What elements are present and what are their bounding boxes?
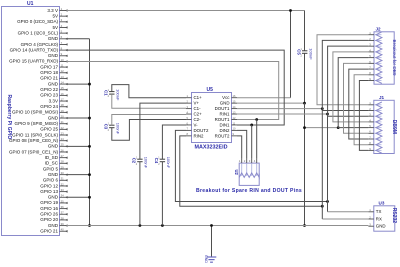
U5 pin 4 C2+ <box>186 110 202 116</box>
junction ROUT1/U2 pin4 <box>255 118 258 121</box>
wire U5 GND row <box>237 102 305 104</box>
svg-text:C1-: C1- <box>194 106 202 111</box>
J1 pin 7 <box>368 135 381 139</box>
U1 pin 23 GPIO 11 (SPI0_SCLK) <box>12 131 68 137</box>
J2 pin 3 <box>368 43 381 47</box>
svg-text:V-: V- <box>194 122 199 127</box>
svg-text:37: 37 <box>61 211 65 215</box>
wire TXD to DIN1 <box>67 50 285 125</box>
junction ground symbol <box>210 224 213 227</box>
svg-text:28: 28 <box>61 160 65 164</box>
U1 pin 3 GPIO 0 (I2C0_SDA) <box>17 18 68 24</box>
svg-text:1: 1 <box>239 159 241 163</box>
svg-text:25: 25 <box>61 143 65 147</box>
svg-text:2: 2 <box>244 159 246 163</box>
J1 zigzag symbol <box>376 102 382 153</box>
svg-text:U2: U2 <box>234 170 239 176</box>
U1 pin 2 5V <box>52 13 67 19</box>
junction GND rail <box>303 224 306 227</box>
wire DB9 net pin8 <box>354 75 368 145</box>
wire U2 pin3 riser <box>251 125 253 159</box>
U1 pin 6 GND <box>48 35 68 41</box>
U2 pin 2 <box>244 159 247 176</box>
svg-text:RIN1: RIN1 <box>219 111 230 116</box>
svg-text:34: 34 <box>61 194 65 198</box>
wire C4 to GND rail <box>161 162 163 226</box>
wire DIN2 to U2 pin2 <box>237 130 247 158</box>
U5 pin 5 C2- <box>186 116 201 122</box>
svg-text:27: 27 <box>61 154 65 158</box>
junction GND pin34 <box>88 196 91 199</box>
svg-text:23: 23 <box>61 131 65 135</box>
U1 pin 24 GPIO 08 (SPI0_CE0_N) <box>9 137 68 143</box>
svg-text:38: 38 <box>61 216 65 220</box>
svg-text:3.3V: 3.3V <box>49 98 59 103</box>
U5 pin 13 RIN1 <box>219 110 237 116</box>
svg-text:GPIO 23: GPIO 23 <box>40 93 58 98</box>
svg-text:39: 39 <box>61 222 65 226</box>
wire GND bottom rail <box>67 225 369 227</box>
J1 pin 4 <box>368 118 381 122</box>
junction GND pin30 <box>88 173 91 176</box>
wire DB9 net pin9 <box>359 81 368 151</box>
ground symbol <box>204 226 217 264</box>
svg-text:RIN2: RIN2 <box>194 133 205 138</box>
wire U2 pin4 riser <box>256 120 258 159</box>
svg-text:100nF: 100nF <box>308 48 313 60</box>
svg-text:GPIO 08 (SPI0_CE0_N): GPIO 08 (SPI0_CE0_N) <box>9 138 59 143</box>
svg-text:Breakout for DB9: Breakout for DB9 <box>392 40 397 76</box>
svg-text:17: 17 <box>61 97 65 101</box>
svg-text:35: 35 <box>61 199 65 203</box>
wire V- to C4 <box>162 125 186 159</box>
svg-text:MAX3232EID: MAX3232EID <box>195 144 228 150</box>
J2 pin 1 <box>368 31 381 35</box>
junction GND branch <box>303 126 306 129</box>
svg-text:ID_SC: ID_SC <box>45 161 59 166</box>
junction 3.3V/VCC <box>289 9 292 12</box>
U1 pin 39 GND <box>48 222 68 228</box>
svg-text:GPIO 12: GPIO 12 <box>40 183 58 188</box>
svg-text:GPIO 17: GPIO 17 <box>40 64 58 69</box>
svg-text:22: 22 <box>61 126 65 130</box>
junction DOUT1 <box>321 107 324 110</box>
connector U3 RS232 <box>374 200 397 231</box>
svg-text:29: 29 <box>61 165 65 169</box>
U1 pin 18 GPIO 24 <box>40 103 67 109</box>
svg-text:GND: GND <box>48 53 59 58</box>
svg-text:11: 11 <box>61 64 64 68</box>
U5 pin 10 DIN2 <box>219 127 237 133</box>
svg-text:2: 2 <box>158 163 160 166</box>
svg-text:GPIO 22: GPIO 22 <box>40 87 58 92</box>
U1 pin 26 GPIO 07 (SPI0_CE1_N) <box>9 148 68 154</box>
J1 pin 3 <box>368 113 381 117</box>
capacitor C2 100nF <box>132 156 149 168</box>
svg-text:Vcc: Vcc <box>222 95 230 100</box>
U1 pin 5 GPIO 1 (I2C0_SCL) <box>18 30 68 36</box>
U1 pin 25 GND <box>48 143 68 149</box>
U3 pin 2 RX <box>368 215 382 221</box>
svg-text:GND: GND <box>48 81 59 86</box>
U5 pin 6 V- <box>186 121 198 127</box>
junction C2/GND rail <box>139 224 142 227</box>
svg-text:C1+: C1+ <box>194 95 203 100</box>
wire DB9 net pin7 <box>349 69 369 139</box>
svg-text:GPIO 9 (SPI0_MISO): GPIO 9 (SPI0_MISO) <box>15 121 59 126</box>
capacitor C1 100nF <box>104 89 121 101</box>
svg-text:J1: J1 <box>379 95 385 100</box>
wire V+ to C2 <box>140 103 186 159</box>
U5 pin 12 ROUT1 <box>215 116 237 122</box>
svg-text:40: 40 <box>61 228 65 232</box>
wire GND pin14 <box>67 83 90 85</box>
svg-text:ROUT1: ROUT1 <box>215 117 230 122</box>
svg-text:GPIO 13: GPIO 13 <box>40 189 58 194</box>
junction DB9 pin5 GND <box>337 126 340 129</box>
svg-text:GND: GND <box>48 115 59 120</box>
U1 pin 32 GPIO 12 <box>40 182 67 188</box>
J1 pin 8 <box>368 141 381 145</box>
U5 pin 11 DIN1 <box>219 121 237 127</box>
wire C3 to C2- <box>112 120 186 141</box>
wire RIN2 loop <box>180 136 322 206</box>
svg-text:5V: 5V <box>52 25 59 30</box>
wire GND pin6 <box>67 38 90 40</box>
wire 3.3V down to C5 <box>304 11 306 51</box>
svg-text:24: 24 <box>61 137 65 141</box>
svg-text:30: 30 <box>61 171 65 175</box>
svg-text:100nF: 100nF <box>166 157 171 169</box>
U1 pin 21 GPIO 9 (SPI0_MISO) <box>15 120 68 126</box>
op-amp U5 MAX3232EID <box>192 87 232 150</box>
U5 pin 7 DOUT2 <box>186 127 209 133</box>
svg-text:V+: V+ <box>194 101 200 106</box>
wire DB9 net pin1 <box>317 35 368 105</box>
U1 pin 22 GPIO 25 <box>40 126 67 132</box>
wire DOUT1 row <box>237 108 322 110</box>
wire to U3 TX <box>328 211 369 213</box>
junction DIN1/U2 pin3 <box>250 124 253 127</box>
wire DB9 net pin6 <box>344 63 369 133</box>
U1 pin 17 3.3V <box>49 97 68 103</box>
svg-text:GND: GND <box>48 223 59 228</box>
wire VCC vertical <box>290 11 292 98</box>
svg-text:DIN2: DIN2 <box>219 128 230 133</box>
junction GND pin14 <box>88 83 91 86</box>
wire DB9 net pin2 <box>322 40 368 110</box>
wire GND pin34 <box>67 196 90 198</box>
svg-text:20: 20 <box>61 114 65 118</box>
svg-text:J2: J2 <box>376 26 382 31</box>
U3 pin 3 GND <box>368 223 385 229</box>
U5 pin 8 RIN2 <box>186 132 204 138</box>
wire net2 down to U3 RX <box>321 111 323 220</box>
U1 pin 28 ID_SC <box>45 160 68 166</box>
svg-text:33: 33 <box>61 188 65 192</box>
J1 pin 2 <box>368 107 381 111</box>
svg-text:21: 21 <box>61 120 65 124</box>
capacitor C3 100nF <box>104 122 121 134</box>
U5 pin 2 V+ <box>186 99 199 105</box>
svg-text:U3: U3 <box>379 200 385 205</box>
svg-text:TX: TX <box>376 209 382 214</box>
svg-text:C2+: C2+ <box>194 111 203 116</box>
svg-text:10: 10 <box>61 58 65 62</box>
svg-text:GPIO 11 (SPI0_SCLK): GPIO 11 (SPI0_SCLK) <box>12 132 58 137</box>
svg-text:GND: GND <box>48 195 59 200</box>
svg-text:14: 14 <box>61 80 65 84</box>
U1 pin 16 GPIO 23 <box>40 92 67 98</box>
J2 pin 4 <box>368 48 381 52</box>
U1 pin 33 GPIO 13 <box>40 188 67 194</box>
svg-text:GPIO 15 (UART0_RXD): GPIO 15 (UART0_RXD) <box>9 59 58 64</box>
svg-text:26: 26 <box>61 148 65 152</box>
svg-text:GPIO 4 (GPCLK0): GPIO 4 (GPCLK0) <box>21 42 59 47</box>
J2 pin 6 <box>368 60 381 64</box>
U5 pin 15 GND <box>220 99 237 105</box>
wire GND pin30 <box>67 174 90 176</box>
svg-text:GPIO 19: GPIO 19 <box>40 200 58 205</box>
U1 pin 36 GPIO 16 <box>40 205 67 211</box>
svg-text:GPIO 0 (I2C0_SDA): GPIO 0 (I2C0_SDA) <box>17 19 58 24</box>
svg-text:GND: GND <box>48 144 59 149</box>
U5 pin 3 C1- <box>186 105 201 111</box>
svg-text:DIN1: DIN1 <box>219 122 230 127</box>
svg-text:GND: GND <box>48 172 59 177</box>
wire RXD to ROUT1 <box>67 61 279 119</box>
svg-text:36: 36 <box>61 205 65 209</box>
wire DB9 net pin5 <box>338 58 368 128</box>
svg-text:GPIO 1 (I2C0_SCL): GPIO 1 (I2C0_SCL) <box>18 30 59 35</box>
U1 pin 40 GPIO 21 <box>40 228 67 234</box>
U1 pin 7 GPIO 4 (GPCLK0) <box>21 41 68 47</box>
wire GND branch to DB9 pin5 <box>305 127 339 129</box>
svg-text:2: 2 <box>301 54 303 57</box>
U2 zigzag symbol <box>239 173 259 178</box>
U1 pin 12 GPIO 18 <box>40 69 67 75</box>
svg-text:DOUT2: DOUT2 <box>194 128 209 133</box>
svg-text:18: 18 <box>61 103 65 107</box>
wire GND vertical <box>304 103 306 225</box>
U1 pin 8 GPIO 14 (UART0_TXD) <box>10 47 68 53</box>
wire net3 down to U3 TX <box>327 116 329 212</box>
capacitor C5 100nF <box>296 48 313 60</box>
junction GND pin25 <box>88 145 91 148</box>
svg-text:GPIO 14 (UART0_TXD): GPIO 14 (UART0_TXD) <box>10 47 59 52</box>
header U1 Raspberry Pi GPIO <box>2 1 60 236</box>
svg-text:15: 15 <box>61 86 65 90</box>
U5 pin 14 DOUT1 <box>215 105 237 111</box>
connector J1 DB9M <box>374 95 397 154</box>
J2 pin 8 <box>368 71 381 75</box>
svg-text:ID_SD: ID_SD <box>45 155 59 160</box>
wire DB9 net pin4 <box>333 52 369 122</box>
svg-text:DOUT1: DOUT1 <box>215 106 230 111</box>
connector J2 Breakout for DB9 <box>374 26 397 84</box>
svg-text:Breakout for Spare RIN and DOU: Breakout for Spare RIN and DOUT Pins <box>196 188 302 194</box>
svg-text:U5: U5 <box>207 87 214 93</box>
svg-text:GND: GND <box>220 101 230 106</box>
junction GND pin20 <box>88 117 91 120</box>
wire RIN1 row <box>237 113 328 115</box>
svg-text:GPIO 18: GPIO 18 <box>40 70 58 75</box>
U1 pin 13 GPIO 21 <box>40 75 67 81</box>
svg-text:GPIO 20: GPIO 20 <box>40 217 58 222</box>
U1 pin 34 GND <box>48 194 68 200</box>
wire GND chain vertical <box>89 39 91 226</box>
U2 pin 1 <box>239 159 242 176</box>
U1 pin 14 GND <box>48 80 68 86</box>
junction RIN1 <box>326 113 329 116</box>
svg-text:GND: GND <box>48 36 59 41</box>
wire ROUT2 to U2 pin1 <box>237 136 242 159</box>
junction GND chain/rail <box>88 224 91 227</box>
svg-text:2: 2 <box>108 95 110 98</box>
U1 pin 37 GPIO 26 <box>40 211 67 217</box>
U1 pin 10 GPIO 15 (UART0_RXD) <box>9 58 68 64</box>
U2 pin 3 <box>249 159 252 176</box>
wire C1 to C1+ <box>112 85 186 98</box>
U1 pin 15 GPIO 22 <box>40 86 67 92</box>
svg-text:U1: U1 <box>27 1 34 7</box>
svg-text:100nF: 100nF <box>144 157 149 169</box>
U1 pin 4 5V <box>52 24 67 30</box>
J2 pin 9 <box>368 77 381 81</box>
wire C3 to C2+ <box>112 115 186 126</box>
svg-text:GND: GND <box>204 255 208 263</box>
svg-text:GPIO 6: GPIO 6 <box>43 178 59 183</box>
U5 pin 9 ROUT2 <box>215 132 237 138</box>
junction RIN2/RX net <box>321 205 324 208</box>
U3 pin 1 TX <box>368 208 381 214</box>
svg-text:2: 2 <box>108 129 110 132</box>
U2 pin 4 <box>254 159 257 176</box>
J1 pin 5 <box>368 124 381 128</box>
wire C2 to GND rail <box>139 162 141 226</box>
U1 pin 1 3.3 V <box>47 7 67 13</box>
svg-text:GPIO 24: GPIO 24 <box>40 104 58 109</box>
U1 pin 30 GND <box>48 171 68 177</box>
J1 pin 9 <box>368 147 381 151</box>
svg-text:19: 19 <box>61 109 65 113</box>
svg-text:3.3 V: 3.3 V <box>47 8 59 13</box>
svg-text:GPIO 10 (SPI0_MOSI): GPIO 10 (SPI0_MOSI) <box>12 110 58 115</box>
svg-text:100nF: 100nF <box>116 123 121 135</box>
svg-text:GPIO 21: GPIO 21 <box>40 76 58 81</box>
wire C1- stub join <box>185 107 187 109</box>
svg-text:32: 32 <box>61 182 65 186</box>
svg-text:ROUT2: ROUT2 <box>215 133 230 138</box>
junction DOUT2/TX net <box>326 200 329 203</box>
svg-text:GPIO 16: GPIO 16 <box>40 206 58 211</box>
capacitor C4 100nF <box>154 156 171 168</box>
J2 pin 2 <box>368 37 381 41</box>
U1 pin 31 GPIO 6 <box>43 177 68 183</box>
svg-text:GPIO 07 (SPI0_CE1_N): GPIO 07 (SPI0_CE1_N) <box>9 149 59 154</box>
svg-text:GPIO 25: GPIO 25 <box>40 127 58 132</box>
wire 3.3V rail <box>67 10 305 12</box>
svg-text:2: 2 <box>136 163 138 166</box>
U1 pin 11 GPIO 17 <box>40 64 67 70</box>
svg-text:GPIO 5: GPIO 5 <box>43 166 59 171</box>
svg-text:3: 3 <box>249 159 251 163</box>
svg-text:13: 13 <box>61 75 65 79</box>
svg-text:4: 4 <box>254 159 256 163</box>
wire GND pin25 <box>67 145 90 147</box>
J1 pin 6 <box>368 130 381 134</box>
svg-text:GPIO 26: GPIO 26 <box>40 212 58 217</box>
wire VCC to U5 pin16 <box>237 97 291 99</box>
svg-text:DB9M: DB9M <box>391 120 397 134</box>
wire DB9 net pin3 <box>328 46 369 116</box>
svg-text:GPIO 21: GPIO 21 <box>40 229 58 234</box>
U1 pin 19 GPIO 10 (SPI0_MOSI) <box>12 109 68 115</box>
J2 pin 7 <box>368 65 381 69</box>
wire C5 to GND net <box>304 53 306 103</box>
J2 pin 5 <box>368 54 381 58</box>
U1 pin 27 ID_SD <box>45 154 68 160</box>
svg-text:12: 12 <box>61 69 65 73</box>
junction C5/GND <box>303 102 306 105</box>
U1 pin 9 GND <box>48 52 68 58</box>
U1 pin 35 GPIO 19 <box>40 199 67 205</box>
wire to U3 RX <box>322 218 368 220</box>
svg-text:31: 31 <box>61 177 65 181</box>
svg-text:100nF: 100nF <box>116 89 121 101</box>
junction C4/GND rail <box>161 224 164 227</box>
J2 zigzag symbol <box>376 32 382 84</box>
U5 pin 1 C1+ <box>186 94 202 100</box>
svg-text:16: 16 <box>61 92 65 96</box>
wire GND pin20 <box>67 117 90 119</box>
J1 pin 1 <box>368 101 381 105</box>
U1 pin 29 GPIO 5 <box>43 165 68 171</box>
connector U2 spare breakout header <box>234 163 259 185</box>
svg-text:C2-: C2- <box>194 117 202 122</box>
wire DOUT2 loop <box>175 130 327 201</box>
svg-text:RX: RX <box>376 216 382 221</box>
svg-text:RS232: RS232 <box>391 208 397 224</box>
U1 pin 38 GPIO 20 <box>40 216 67 222</box>
svg-text:GND: GND <box>376 224 386 229</box>
wire C1 to C1- <box>112 94 186 108</box>
svg-text:5V: 5V <box>52 13 59 18</box>
U1 pin 20 GND <box>48 114 68 120</box>
U5 pin 16 Vcc <box>222 94 237 100</box>
